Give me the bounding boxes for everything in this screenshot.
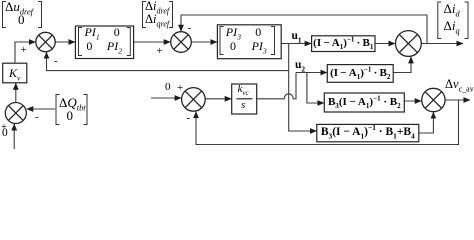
wire S3 to output di_dq [421,43,463,45]
plus sign at S6 [177,83,183,94]
summing junction S1 [36,32,55,51]
block (I-A1)^-1 B1 rectangle [312,36,375,52]
bracket of matrix PI3 PI3 [220,27,275,55]
label u1 [292,31,302,43]
vector label [di_dref;di_qref] [145,0,169,13]
vector label [du_dref;0] [5,0,33,13]
block text B3(I-A1)^-1 B2 [324,93,404,112]
wire block B3(I-A1)^-1 B1+B4 to S4 bottom input [419,112,434,133]
wire u2 drop to block B3(I-A1)^-1 B2 [307,73,324,104]
block text Kv [3,63,27,83]
zero label at S5 bottom [2,128,8,140]
block B3(I-A1)^-1 B2 rectangle [324,93,404,112]
block B3(I-A1)^-1 B1+B4 rectangle [317,124,419,141]
wire kvc/s output with hop over u1 drop, riser to node u2 [257,73,296,99]
wire vector dQ to S5 minus input [27,108,55,110]
wire block (I-A1)^-1 B2 to S3 bottom input [393,57,411,73]
wire zero input to summing junction S6 [151,97,181,99]
wire feedback tap from dv output down, left and up to S6 minus input [196,100,459,145]
matrix PI3 0 / 0 PI3 [226,26,241,38]
wire S5 output up to Kv block [15,83,17,102]
wire feedback tap from output up and left to S2 [181,15,427,44]
summing junction S6 [182,88,206,112]
minus sign at S2 top [188,23,192,34]
wire u2 bus to block (I-A1)^-1 B2 [296,72,327,74]
block Kv rectangle [3,63,27,83]
minus sign at S1 bottom [54,56,58,67]
wire PI block 2 to block (I-A1)^-1 B1, node u1 [281,43,311,45]
integrator text kvc over s [238,84,249,95]
wire PI block 1 to summing junction S2 [134,41,171,43]
wire u1 drop to block B3(I-A1)^-1 B1+B4 [289,44,317,132]
block text B3(I-A1)^-1 B1+B4 [317,124,419,141]
plus sign at S1 [21,45,27,56]
fraction bar of kvc/s [237,98,253,100]
plus sign at S5 bottom [1,123,7,134]
wire S6 to integrator block kvc/s [205,98,231,100]
wire block (I-A1)^-1 B1 to summing junction S3 [375,43,395,45]
minus sign at S6 bottom [187,113,191,124]
summing junction S3 [396,31,422,57]
PI block 1 rectangle [75,26,133,59]
integrator block kvc/s rectangle [232,84,257,114]
matrix PI1 0 / 0 PI2 [85,26,100,38]
wire S4 to output dv_c_avg [445,99,470,101]
vector label [di_d;di_q] [444,2,460,15]
wire S1 to PI block 1 [55,41,75,43]
summing junction S2 [171,32,192,53]
label dv_c_avg output [445,78,474,91]
wire S2 to PI block 2 [191,41,217,43]
zero label at S6 input [165,82,171,93]
wire block B3(I-A1)^-1 B2 to summing junction S4 [404,100,421,102]
wire feedback u1 to S1 minus input [47,52,289,71]
bracket of vector [du_dref;0] [3,2,42,28]
label u2 [295,60,305,72]
plus sign at S2 [157,46,163,57]
bracket of vector [di_d;di_q] [438,2,468,39]
bracket of vector [di_dref;di_qref] [143,2,173,28]
summing junction S4 [422,88,445,111]
block text (I-A1)^-1 B1 [312,36,375,52]
bracket of vector [dQ;0] [56,95,87,125]
bracket of matrix PI1 PI2 [79,28,131,56]
wire zero input bottom to S5 [13,124,15,149]
summing junction S5 [5,103,26,124]
wire Kv output to summing junction S1 [15,42,35,63]
minus sign at S5 right [35,112,39,123]
block (I-A1)^-1 B2 rectangle [327,65,393,83]
PI block 2 rectangle [217,25,281,59]
block text (I-A1)^-1 B2 [327,65,393,83]
vector label [dQ;0] [59,96,86,109]
